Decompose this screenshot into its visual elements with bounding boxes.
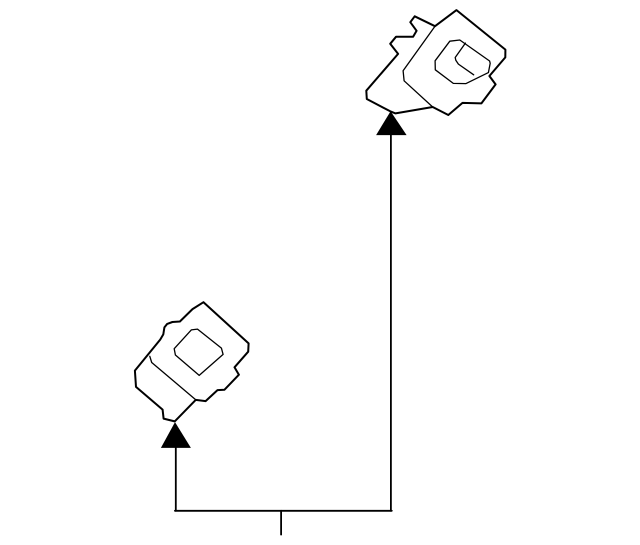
part U1: inner pentagon detail [435,40,490,84]
part U1: inner hook detail [455,43,474,75]
callout stub (vertical tick) [280,511,282,535]
leader connector (horizontal) [175,510,392,512]
leader line to part L1 (vertical) [175,447,177,511]
part L1: inner rounded-square detail [174,329,223,375]
part U1: upper bracket outer outline [366,10,505,115]
part U1: interior fold line [403,26,435,107]
part L1: lower bracket outer outline [135,302,249,421]
part L1: interior fold line [150,356,196,399]
arrowhead to part L1 [161,422,191,448]
leader line to part U1 (vertical) [390,134,392,511]
arrowhead to part U1 [376,111,407,135]
